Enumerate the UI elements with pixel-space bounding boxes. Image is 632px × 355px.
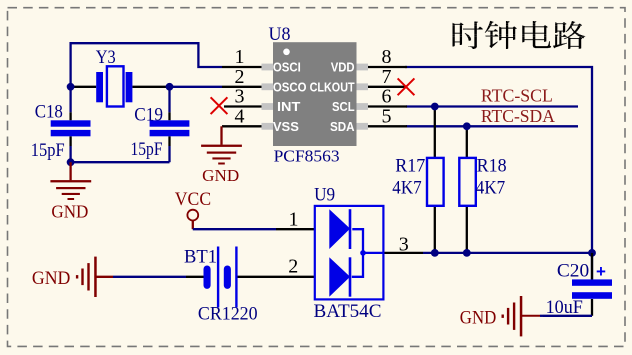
svg-text:VDD: VDD — [331, 60, 355, 75]
svg-text:U9: U9 — [314, 185, 335, 206]
svg-text:2: 2 — [288, 256, 298, 278]
svg-text:R17: R17 — [395, 156, 425, 177]
svg-text:15pF: 15pF — [131, 139, 163, 160]
svg-text:1: 1 — [289, 208, 299, 230]
svg-text:SDA: SDA — [330, 119, 355, 134]
svg-text:6: 6 — [382, 86, 392, 108]
svg-text:OSCO: OSCO — [273, 79, 307, 94]
svg-text:VSS: VSS — [273, 119, 299, 134]
svg-text:5: 5 — [382, 106, 392, 128]
svg-text:8: 8 — [382, 46, 392, 68]
svg-text:15pF: 15pF — [31, 140, 65, 161]
svg-text:C18: C18 — [35, 102, 63, 123]
svg-text:GND: GND — [460, 307, 497, 328]
svg-text:4K7: 4K7 — [392, 178, 421, 199]
svg-text:3: 3 — [235, 86, 245, 108]
svg-text:CR1220: CR1220 — [198, 304, 258, 325]
svg-text:BT1: BT1 — [184, 247, 217, 268]
svg-text:U8: U8 — [269, 24, 291, 45]
svg-text:INT: INT — [277, 99, 300, 114]
svg-text:C19: C19 — [134, 104, 163, 125]
svg-text:3: 3 — [399, 233, 409, 255]
svg-text:GND: GND — [202, 166, 239, 185]
svg-text:2: 2 — [235, 66, 245, 88]
svg-text:PCF8563: PCF8563 — [274, 146, 340, 165]
svg-text:GND: GND — [32, 268, 71, 289]
svg-text:10uF: 10uF — [546, 297, 583, 318]
svg-text:CLKOUT: CLKOUT — [310, 79, 355, 94]
svg-text:RTC-SDA: RTC-SDA — [481, 106, 555, 126]
svg-text:Y3: Y3 — [96, 47, 116, 68]
svg-text:C20: C20 — [557, 260, 589, 281]
svg-text:GND: GND — [51, 202, 88, 222]
svg-text:RTC-SCL: RTC-SCL — [481, 86, 553, 106]
svg-text:+: + — [596, 262, 606, 281]
svg-text:4K7: 4K7 — [476, 178, 505, 199]
svg-text:4: 4 — [235, 106, 245, 128]
svg-text:1: 1 — [235, 46, 245, 68]
svg-text:R18: R18 — [477, 156, 507, 177]
svg-text:VCC: VCC — [175, 189, 211, 210]
svg-text:OSCI: OSCI — [273, 60, 301, 75]
svg-text:SCL: SCL — [332, 99, 355, 114]
svg-text:BAT54C: BAT54C — [314, 301, 382, 322]
svg-text:7: 7 — [382, 66, 392, 88]
